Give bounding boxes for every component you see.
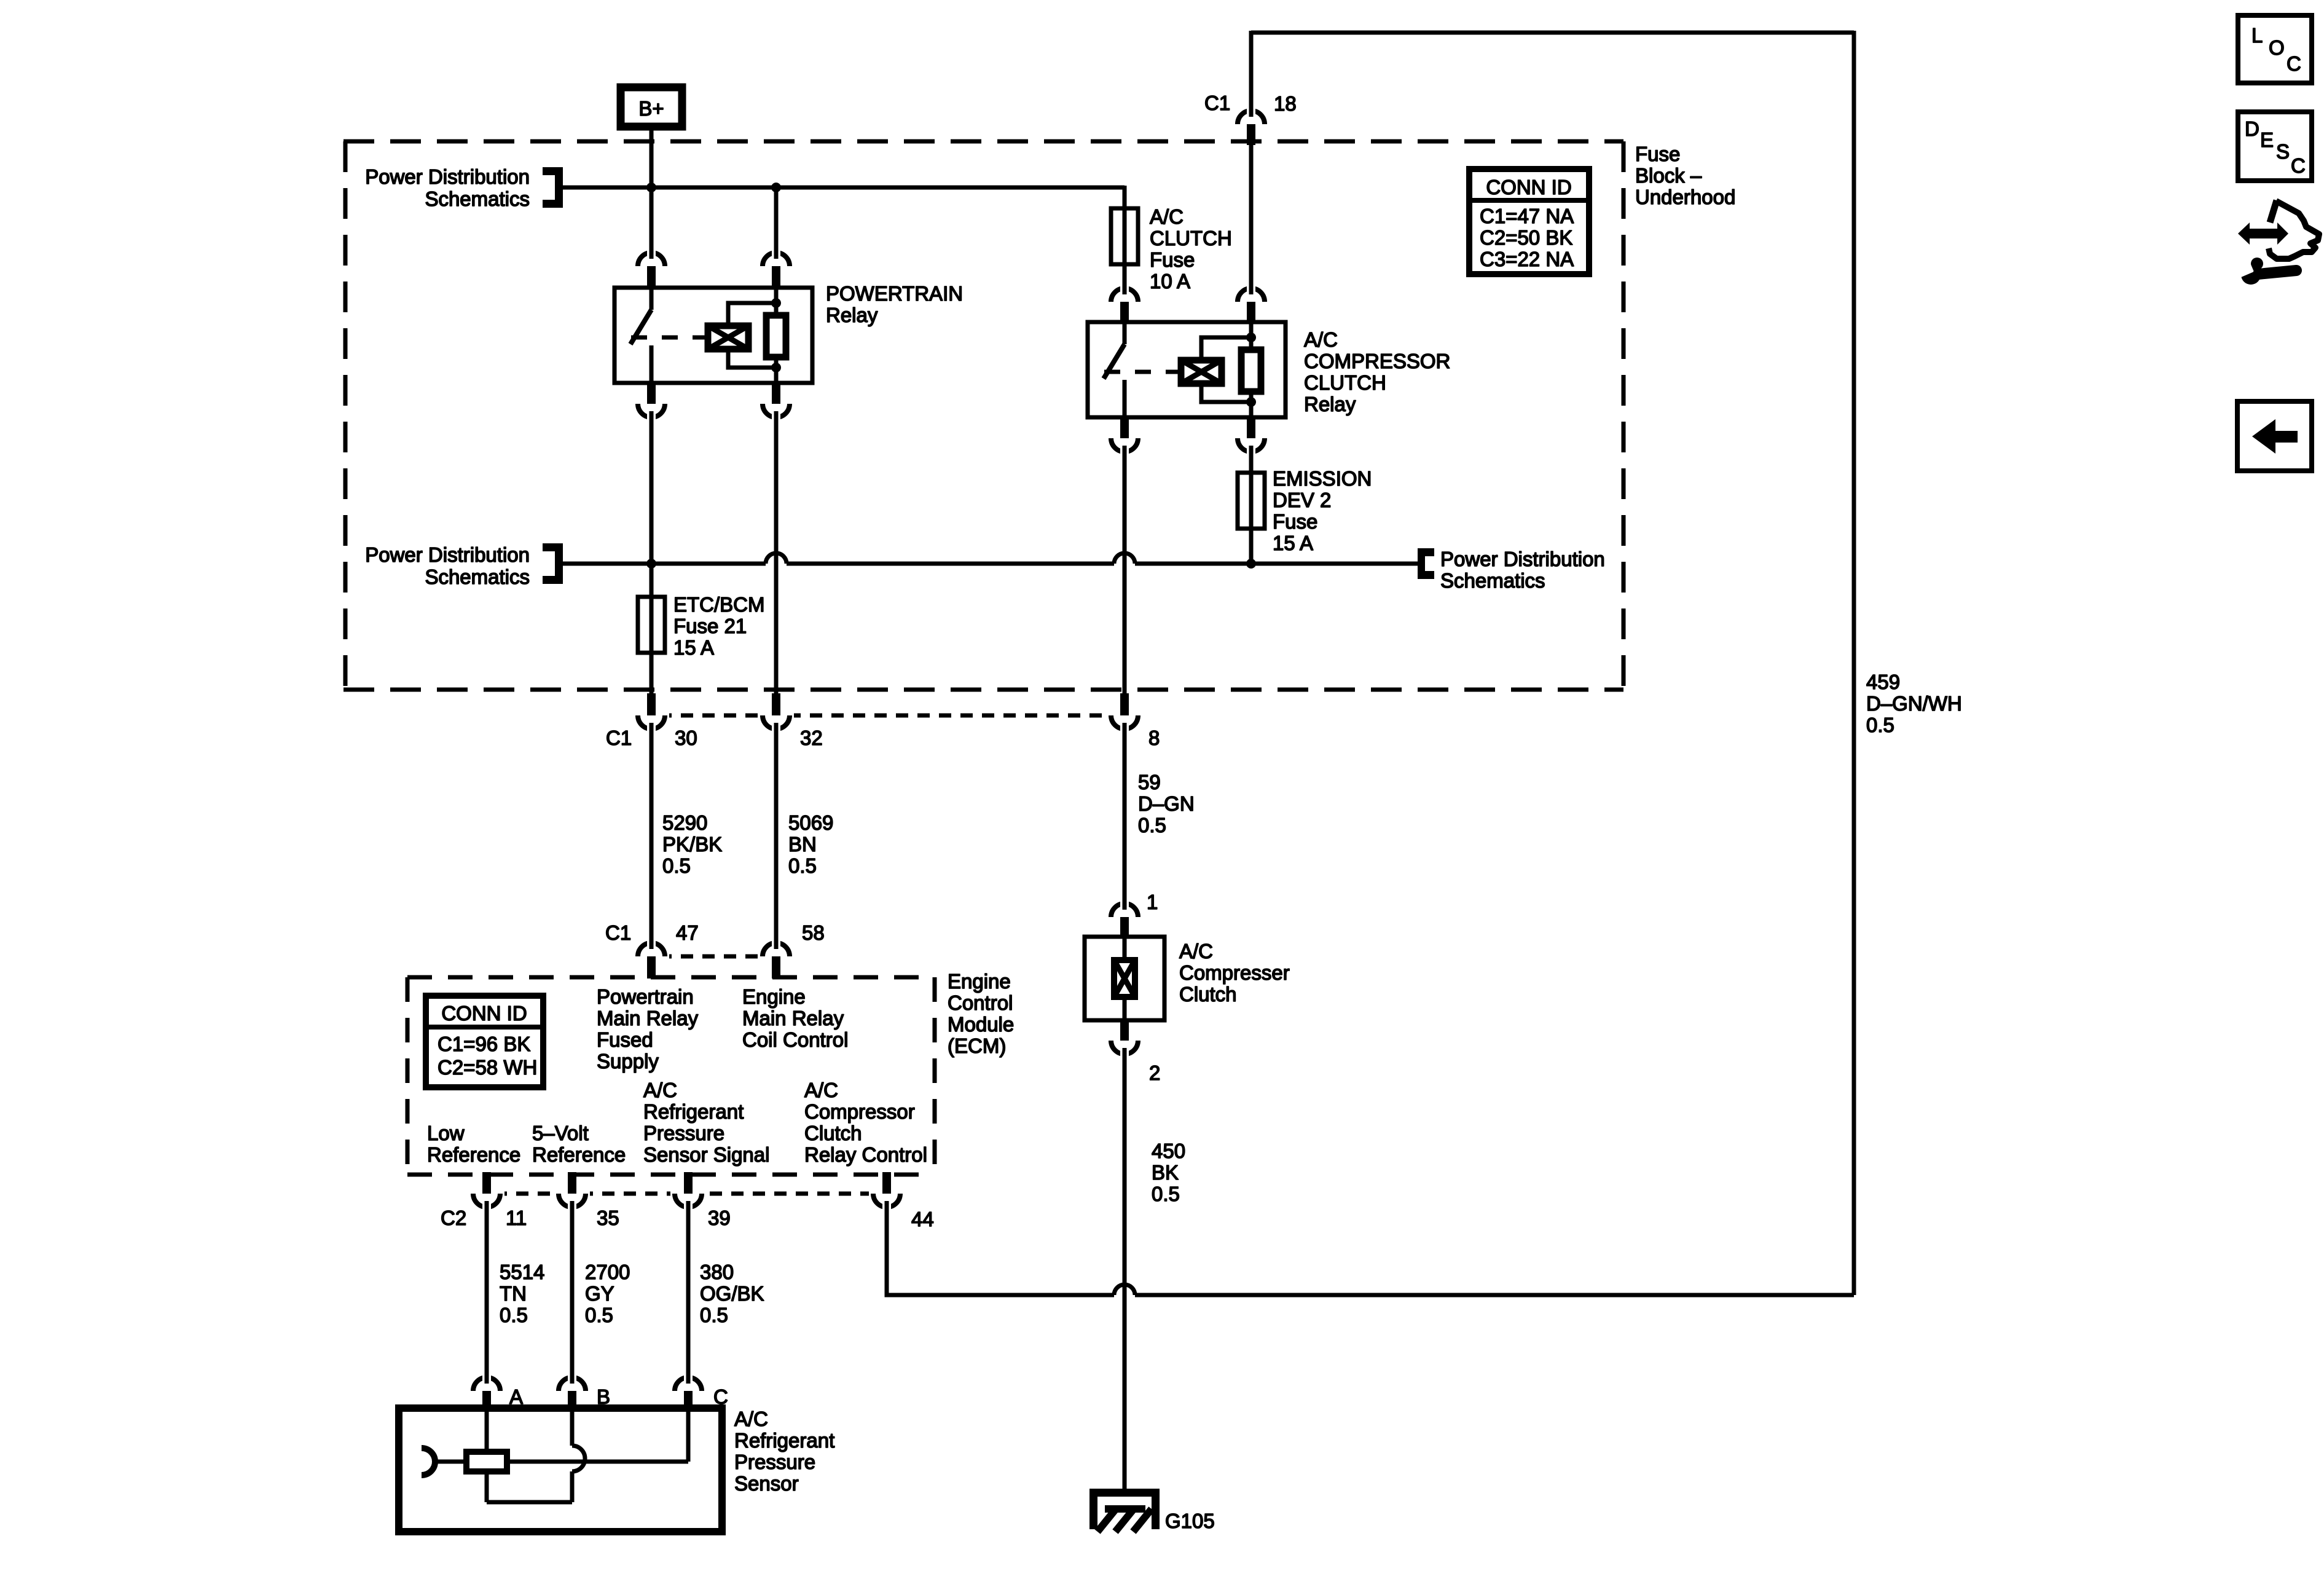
svg-text:A/C: A/C xyxy=(734,1408,768,1430)
icon: LOC box xyxy=(2238,15,2312,83)
relay: A/C COMPRESSOR CLUTCH Relay xyxy=(1088,322,1286,417)
hop: bus over wire x=1263 xyxy=(766,553,787,564)
wire: emission fuse to power bus xyxy=(1249,529,1254,564)
svg-text:Reference: Reference xyxy=(427,1143,520,1166)
connector C1 pin 32 xyxy=(758,693,823,749)
B+ battery feed symbol xyxy=(621,87,682,127)
svg-text:D–GN/WH: D–GN/WH xyxy=(1866,692,1962,715)
bracket: power distribution schematics (top left) xyxy=(543,167,563,208)
wire: sensor element to signal line xyxy=(507,1460,688,1464)
svg-text:Engine: Engine xyxy=(742,985,806,1008)
svg-text:380: 380 xyxy=(700,1261,734,1283)
connector: powertrain relay terminal top-left xyxy=(634,248,669,288)
label: Engine Control Module (ECM) xyxy=(948,970,1014,1057)
icon: back arrow box xyxy=(2237,401,2312,471)
svg-text:47: 47 xyxy=(676,921,699,944)
svg-text:0.5: 0.5 xyxy=(662,854,691,877)
svg-text:BN: BN xyxy=(788,833,817,856)
wire: A/C clutch fuse to relay connector xyxy=(1123,264,1127,289)
node: junction bus x relay coil wire xyxy=(771,183,781,192)
node: junction bus x etc/bcm feed xyxy=(646,559,656,569)
svg-text:Compressor: Compressor xyxy=(804,1100,915,1123)
label: 450 BK 0.5 xyxy=(1152,1140,1185,1205)
svg-text:Sensor Signal: Sensor Signal xyxy=(643,1143,769,1166)
label: Power Distribution Schematics (right) xyxy=(1440,548,1605,592)
svg-text:2: 2 xyxy=(1149,1061,1160,1084)
svg-text:L: L xyxy=(2251,24,2263,47)
wire: etc/bcm fuse to fuse block exit xyxy=(650,653,654,695)
svg-text:Powertrain: Powertrain xyxy=(597,985,694,1008)
svg-text:GY: GY xyxy=(585,1282,614,1305)
svg-text:TN: TN xyxy=(500,1282,527,1305)
wire: sensor pin C lead xyxy=(686,1408,691,1462)
component: A/C Refrigerant Pressure Sensor box xyxy=(399,1408,722,1532)
svg-text:8: 8 xyxy=(1148,726,1160,749)
svg-text:0.5: 0.5 xyxy=(788,854,817,877)
connector: compresser clutch pin 2 xyxy=(1107,1020,1160,1084)
label: A/C CLUTCH Fuse 10 A xyxy=(1150,205,1232,293)
svg-text:Coil Control: Coil Control xyxy=(742,1028,848,1051)
connector: powertrain relay terminal bottom-right xyxy=(758,383,794,422)
svg-text:PK/BK: PK/BK xyxy=(662,833,722,856)
svg-text:Clutch: Clutch xyxy=(1179,983,1237,1006)
svg-text:Low: Low xyxy=(427,1122,465,1144)
svg-text:44: 44 xyxy=(911,1208,934,1231)
connector: compressor relay terminal bottom-left xyxy=(1107,417,1142,457)
icon: diagnose arrow + wrench xyxy=(2237,200,2319,285)
svg-text:0.5: 0.5 xyxy=(500,1304,528,1326)
hop: pin-44 run over 450 BK wire xyxy=(1114,1285,1135,1295)
svg-text:BK: BK xyxy=(1152,1161,1179,1184)
svg-text:5290: 5290 xyxy=(662,811,707,834)
svg-text:CONN ID: CONN ID xyxy=(1486,176,1571,199)
svg-text:10 A: 10 A xyxy=(1150,270,1190,293)
svg-text:EMISSION: EMISSION xyxy=(1273,467,1372,490)
label: 5069 BN 0.5 xyxy=(788,811,833,877)
svg-text:A/C: A/C xyxy=(1179,940,1213,963)
label: 2700 GY 0.5 xyxy=(585,1261,630,1326)
svg-text:5514: 5514 xyxy=(500,1261,544,1283)
svg-text:Refrigerant: Refrigerant xyxy=(734,1429,834,1452)
svg-text:C2=58 WH: C2=58 WH xyxy=(438,1056,537,1079)
label: ETC/BCM Fuse 21 15 A xyxy=(673,593,765,659)
svg-text:C1: C1 xyxy=(1204,92,1230,114)
connector C2 pin 39 xyxy=(670,1172,731,1229)
svg-text:Main Relay: Main Relay xyxy=(742,1007,844,1030)
svg-text:Pressure: Pressure xyxy=(643,1122,724,1144)
svg-text:E: E xyxy=(2260,128,2274,151)
svg-text:C1: C1 xyxy=(606,726,632,749)
svg-text:C1=47 NA: C1=47 NA xyxy=(1480,205,1574,227)
node: junction bus x emission fuse xyxy=(1246,559,1256,569)
wire 59 D-GN (x=1830) xyxy=(1123,727,1127,904)
wire: drop to C1-18 connector xyxy=(1249,31,1254,112)
connector: compressor relay terminal top-right xyxy=(1233,283,1269,322)
wire: C1-18 to compressor clutch relay xyxy=(1249,145,1254,289)
svg-text:1: 1 xyxy=(1147,891,1158,913)
fuse: EMISSION DEV 2 Fuse 15A xyxy=(1238,473,1265,529)
svg-text:Sensor: Sensor xyxy=(734,1472,799,1495)
label: EMISSION DEV 2 Fuse 15 A xyxy=(1273,467,1372,554)
label: 5514 TN 0.5 xyxy=(500,1261,544,1326)
svg-text:459: 459 xyxy=(1866,671,1900,693)
svg-text:0.5: 0.5 xyxy=(1138,814,1166,837)
svg-text:S: S xyxy=(2276,140,2290,163)
wire 380 OG/BK (x=1120) xyxy=(686,1205,691,1378)
svg-text:Compresser: Compresser xyxy=(1179,961,1290,984)
svg-text:Power Distribution: Power Distribution xyxy=(365,165,530,188)
fuse block - underhood (dashed boundary box) xyxy=(343,141,1623,690)
label: 380 OG/BK 0.5 xyxy=(700,1261,764,1326)
svg-text:Fused: Fused xyxy=(597,1028,653,1051)
fuse: A/C CLUTCH Fuse 10A xyxy=(1111,208,1138,264)
svg-text:OG/BK: OG/BK xyxy=(700,1282,764,1305)
svg-text:CLUTCH: CLUTCH xyxy=(1150,227,1232,250)
label: Powertrain Main Relay Fused Supply xyxy=(597,985,699,1073)
connector: powertrain relay terminal bottom-left xyxy=(634,383,669,422)
svg-text:C1=96 BK: C1=96 BK xyxy=(438,1033,530,1055)
svg-text:Main Relay: Main Relay xyxy=(597,1007,699,1030)
connector: compressor relay terminal top-left xyxy=(1107,283,1142,322)
node: junction B+ x powertrain feed xyxy=(646,183,656,192)
label: Low Reference xyxy=(427,1122,520,1166)
svg-text:Relay: Relay xyxy=(1304,393,1356,415)
ECM (dashed boundary box) xyxy=(407,977,935,1175)
label: A/C Compressor Clutch Relay Control xyxy=(804,1079,927,1166)
svg-text:Power Distribution: Power Distribution xyxy=(1440,548,1605,570)
connector: compresser clutch pin 1 xyxy=(1107,891,1158,938)
svg-text:Schematics: Schematics xyxy=(1440,569,1545,592)
relay: POWERTRAIN Relay xyxy=(614,288,812,383)
svg-text:Reference: Reference xyxy=(532,1143,626,1166)
wire: powertrain relay switch out (x=1060) xyxy=(650,415,654,597)
connector C1 pin 58 xyxy=(758,921,825,979)
svg-text:59: 59 xyxy=(1138,771,1161,793)
svg-text:58: 58 xyxy=(802,921,825,944)
ground G105 xyxy=(1089,1489,1215,1532)
connector C2 pin 35 xyxy=(554,1172,619,1229)
label: 5290 PK/BK 0.5 xyxy=(662,811,722,877)
wire 5290 PK/BK (x=1060) xyxy=(650,727,654,943)
label: A/C Refrigerant Pressure Sensor xyxy=(734,1408,834,1495)
svg-text:C: C xyxy=(2291,154,2306,177)
svg-text:Underhood: Underhood xyxy=(1635,186,1735,208)
svg-text:0.5: 0.5 xyxy=(585,1304,613,1326)
svg-text:2700: 2700 xyxy=(585,1261,630,1283)
wire: right riser 459 D-GN/WH (x=3017) xyxy=(1852,31,1856,1295)
wire 2700 GY (x=931) xyxy=(570,1205,575,1378)
fuse: ETC/BCM Fuse 21 15A xyxy=(638,597,665,653)
svg-text:C2: C2 xyxy=(441,1207,466,1229)
wire 5514 TN (x=792) xyxy=(485,1205,489,1378)
svg-text:A/C: A/C xyxy=(804,1079,838,1101)
svg-text:15 A: 15 A xyxy=(673,636,714,659)
label: Power Distribution Schematics (left, y=917) xyxy=(365,543,530,588)
svg-text:35: 35 xyxy=(597,1207,619,1229)
connector line: fuse block bottom (dotted) xyxy=(638,714,1140,718)
svg-text:Engine: Engine xyxy=(948,970,1011,993)
svg-text:A/C: A/C xyxy=(1304,328,1338,351)
svg-text:ETC/BCM: ETC/BCM xyxy=(673,593,765,616)
svg-text:Refrigerant: Refrigerant xyxy=(643,1100,744,1123)
table: ECM CONN ID xyxy=(426,996,543,1087)
svg-text:Fuse 21: Fuse 21 xyxy=(673,615,747,637)
connector sensor pin B xyxy=(554,1372,610,1412)
label: Fuse Block - Underhood xyxy=(1635,143,1735,208)
wire: relay coil feed drop (x=1263) xyxy=(774,187,779,256)
svg-text:Control: Control xyxy=(948,991,1013,1014)
svg-text:Fuse: Fuse xyxy=(1150,248,1195,271)
table: fuse block CONN ID xyxy=(1469,169,1589,274)
svg-text:15 A: 15 A xyxy=(1273,532,1313,554)
svg-text:Relay Control: Relay Control xyxy=(804,1143,927,1166)
connector C1 pin 8 xyxy=(1107,693,1160,749)
svg-text:5–Volt: 5–Volt xyxy=(532,1122,589,1144)
sensor: sense element (resistor) xyxy=(466,1452,507,1471)
connector line: ECM top (dotted) xyxy=(638,955,793,959)
svg-text:A/C: A/C xyxy=(643,1079,677,1101)
sensor: pressure port symbol xyxy=(422,1448,466,1475)
svg-text:G105: G105 xyxy=(1165,1510,1215,1532)
label: A/C Refrigerant Pressure Sensor Signal xyxy=(643,1079,769,1166)
svg-text:5069: 5069 xyxy=(788,811,833,834)
svg-text:Clutch: Clutch xyxy=(804,1122,862,1144)
wire: top feed line (y=53) xyxy=(1251,31,1854,35)
svg-text:450: 450 xyxy=(1152,1140,1185,1162)
connector: compressor relay terminal bottom-right xyxy=(1233,417,1269,457)
wire: B+ feed bus (y=305) xyxy=(563,186,1125,190)
svg-text:C3=22 NA: C3=22 NA xyxy=(1480,248,1574,270)
component: A/C Compresser Clutch coil xyxy=(1085,937,1164,1020)
svg-text:Relay: Relay xyxy=(826,304,878,326)
label: Engine Main Relay Coil Control xyxy=(742,985,848,1051)
svg-text:CLUTCH: CLUTCH xyxy=(1304,371,1386,394)
svg-text:(ECM): (ECM) xyxy=(948,1034,1006,1057)
svg-text:Module: Module xyxy=(948,1013,1014,1036)
label: 5-Volt Reference xyxy=(532,1122,626,1166)
label: A/C Compresser Clutch xyxy=(1179,940,1290,1006)
svg-text:Schematics: Schematics xyxy=(425,565,530,588)
svg-text:D–GN: D–GN xyxy=(1138,792,1195,815)
connector C1 pin 47 xyxy=(605,921,699,979)
bracket: power distribution schematics (right) xyxy=(1418,548,1434,579)
svg-text:0.5: 0.5 xyxy=(1866,714,1894,736)
wire: compressor relay coil to emission fuse xyxy=(1249,450,1254,473)
icon: DESC box xyxy=(2238,112,2312,181)
svg-text:32: 32 xyxy=(800,726,823,749)
label: A/C COMPRESSOR CLUTCH Relay xyxy=(1304,328,1450,415)
svg-text:DEV 2: DEV 2 xyxy=(1273,489,1331,511)
svg-text:Pressure: Pressure xyxy=(734,1451,815,1473)
svg-text:39: 39 xyxy=(708,1207,731,1229)
svg-text:0.5: 0.5 xyxy=(1152,1183,1180,1205)
svg-text:Fuse: Fuse xyxy=(1273,510,1317,533)
wire: B+ down to relay junction xyxy=(650,127,654,256)
wire: power distribution bus (y=917) xyxy=(563,562,1418,566)
connector: powertrain relay terminal top-right xyxy=(758,248,794,288)
label: POWERTRAIN Relay xyxy=(826,282,963,326)
wire: sensor pin A lead xyxy=(485,1408,489,1452)
connector sensor pin A xyxy=(469,1372,523,1412)
svg-text:A/C: A/C xyxy=(1150,205,1184,228)
svg-text:Schematics: Schematics xyxy=(425,187,530,210)
svg-text:18: 18 xyxy=(1274,92,1297,115)
svg-text:POWERTRAIN: POWERTRAIN xyxy=(826,282,963,305)
connector C2 pin 44 xyxy=(869,1172,934,1231)
svg-text:C1: C1 xyxy=(605,921,631,944)
wire: compressor relay switch out (x=1830) xyxy=(1123,450,1127,695)
svg-text:C2=50 BK: C2=50 BK xyxy=(1480,226,1572,249)
label: 459 D-GN/WH 0.5 xyxy=(1866,671,1962,736)
connector line: ECM bottom (dotted) xyxy=(473,1192,901,1196)
svg-text:Supply: Supply xyxy=(597,1050,659,1073)
svg-text:Fuse: Fuse xyxy=(1635,143,1680,165)
wire: powertrain relay coil out (x=1263) xyxy=(774,415,779,695)
connector sensor pin C xyxy=(670,1372,728,1412)
svg-text:CONN ID: CONN ID xyxy=(441,1002,527,1025)
svg-text:0.5: 0.5 xyxy=(700,1304,728,1326)
label: 59 D-GN 0.5 xyxy=(1138,771,1195,837)
wire 5069 BN (x=1263) xyxy=(774,727,779,943)
svg-text:COMPRESSOR: COMPRESSOR xyxy=(1304,350,1450,372)
svg-text:30: 30 xyxy=(675,726,697,749)
connector C1 pin 30 xyxy=(606,693,697,749)
svg-text:C: C xyxy=(2287,52,2301,75)
sensor: wiper arm (pin B) xyxy=(487,1408,585,1502)
connector C1 pin 18 (into fuse block) xyxy=(1204,92,1297,145)
svg-text:Block –: Block – xyxy=(1635,164,1702,187)
svg-text:Power Distribution: Power Distribution xyxy=(365,543,530,566)
wire 450 BK (x=1830) xyxy=(1123,1052,1127,1492)
svg-text:11: 11 xyxy=(506,1207,527,1229)
svg-text:D: D xyxy=(2245,117,2259,140)
hop: bus over wire x=1830 xyxy=(1114,553,1135,564)
bracket: power distribution schematics (left, y=917) xyxy=(543,543,563,584)
label: Power Distribution Schematics (top left) xyxy=(365,165,530,210)
wire: bus corner down to A/C clutch fuse xyxy=(1123,186,1127,208)
svg-text:O: O xyxy=(2269,36,2285,59)
connector C2 pin 11 xyxy=(441,1172,527,1229)
wire: pin 44 run to right riser xyxy=(887,1205,1854,1295)
svg-text:B+: B+ xyxy=(638,97,664,120)
